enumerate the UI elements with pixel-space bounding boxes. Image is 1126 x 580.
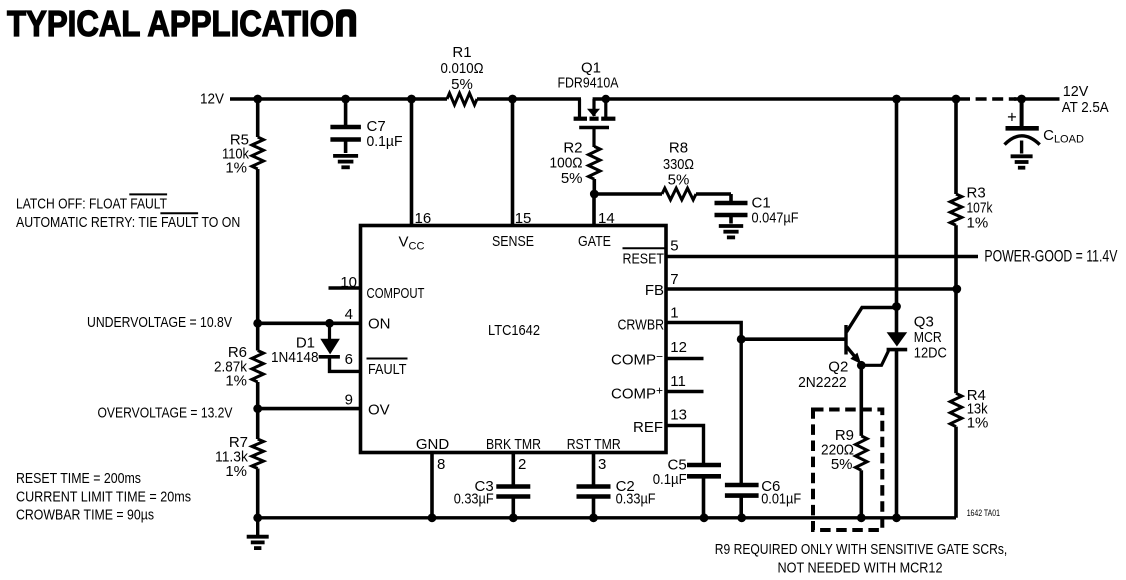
svg-text:+: + <box>1007 109 1017 127</box>
R9 optional dashed box <box>813 410 882 531</box>
wire pin13 REF net <box>666 426 704 464</box>
svg-text:0.047µF: 0.047µF <box>752 210 799 227</box>
svg-text:0.33µF: 0.33µF <box>616 491 656 508</box>
pin name FAULT <box>367 359 408 379</box>
wire pin15 SENSE from rail <box>511 99 515 227</box>
svg-text:1%: 1% <box>225 373 247 390</box>
svg-text:5%: 5% <box>561 170 583 187</box>
svg-text:4: 4 <box>345 306 353 323</box>
svg-text:AT 2.5A: AT 2.5A <box>1062 99 1109 116</box>
wire Q2 base wire <box>741 337 846 341</box>
junction R5-R6-ON <box>253 319 262 328</box>
svg-text:ON: ON <box>368 316 391 333</box>
pin name REF <box>633 419 663 436</box>
transistor Q1 <box>558 60 619 147</box>
pin name COMP- <box>611 350 663 369</box>
svg-text:CROWBAR TIME = 90µs: CROWBAR TIME = 90µs <box>16 507 154 524</box>
node 12V output label <box>1062 83 1109 116</box>
ground main <box>247 518 269 548</box>
svg-text:RESET: RESET <box>623 250 665 267</box>
resistor R3 <box>950 99 993 289</box>
junction rail-R7 <box>253 513 262 522</box>
note figure tag 1642 TA01 <box>967 508 1000 519</box>
svg-text:12: 12 <box>670 339 687 356</box>
svg-text:330Ω: 330Ω <box>663 156 694 173</box>
node OVERVOLTAGE label <box>98 405 233 422</box>
capacitor C2 <box>577 451 656 518</box>
pin name GATE <box>578 233 611 250</box>
svg-text:15: 15 <box>515 210 532 227</box>
pin name CRWBR <box>618 317 665 334</box>
svg-text:CRWBR: CRWBR <box>618 317 665 334</box>
wire R8 to C1 <box>696 192 731 196</box>
note automatic retry <box>16 213 240 231</box>
junction rail-C2 <box>589 513 598 522</box>
pin name VCC <box>399 234 425 253</box>
svg-text:UNDERVOLTAGE = 10.8V: UNDERVOLTAGE = 10.8V <box>87 314 232 331</box>
junction Q2collector-Q3anode <box>892 302 901 311</box>
thyristor Q3 <box>861 99 947 518</box>
wire gate to R8 <box>594 192 662 196</box>
pin name OV <box>368 402 390 419</box>
resistor R2 <box>550 139 601 194</box>
node UNDERVOLTAGE label <box>87 314 232 331</box>
pin 4 label <box>345 306 353 323</box>
ground C1 <box>719 226 743 237</box>
capacitor C7 <box>330 99 402 153</box>
wire 12V top rail mid segment <box>477 97 581 101</box>
svg-text:12DC: 12DC <box>914 345 947 362</box>
svg-text:16: 16 <box>415 210 432 227</box>
svg-text:2N2222: 2N2222 <box>798 374 847 391</box>
svg-text:1%: 1% <box>967 415 989 432</box>
pin name COMPOUT <box>367 285 425 302</box>
svg-text:1: 1 <box>670 305 678 322</box>
note R9 required line2 <box>778 560 943 577</box>
svg-text:FDR9410A: FDR9410A <box>558 75 619 92</box>
svg-text:7: 7 <box>670 271 678 288</box>
pin 13 label <box>670 406 687 423</box>
junction rail-C6 <box>737 513 746 522</box>
junction rail-pin8 <box>428 513 437 522</box>
pin 7 label <box>670 271 678 288</box>
pin name RST TMR <box>567 436 621 453</box>
wire 12V top rail output segment <box>1014 97 1060 101</box>
capacitor C6 <box>725 478 801 518</box>
svg-text:COMP−: COMP− <box>611 350 663 369</box>
svg-text:1%: 1% <box>967 215 989 232</box>
node 12V input label <box>200 91 224 108</box>
node POWER-GOOD label <box>984 246 1118 265</box>
wire gate to pin14 <box>592 194 596 227</box>
junction rail-C5 <box>700 513 709 522</box>
svg-text:5%: 5% <box>831 456 853 473</box>
svg-text:NOT NEEDED WITH MCR12: NOT NEEDED WITH MCR12 <box>778 560 943 577</box>
capacitor C1 <box>715 194 799 227</box>
pin 11 stub <box>666 390 704 394</box>
svg-text:RST TMR: RST TMR <box>567 436 621 453</box>
svg-text:TYPICAL APPLICATIO: TYPICAL APPLICATIO <box>7 3 334 44</box>
svg-text:0.01µF: 0.01µF <box>761 491 801 508</box>
junction rail-R5 <box>253 95 262 104</box>
resistor R4 <box>950 289 988 518</box>
wire ON net <box>258 321 361 325</box>
svg-text:FAULT: FAULT <box>368 361 407 378</box>
junction rail-CLOAD <box>1017 95 1026 104</box>
svg-text:1642 TA01: 1642 TA01 <box>967 508 1000 519</box>
svg-text:5%: 5% <box>668 172 690 189</box>
title TYPICAL APPLICATION <box>7 3 356 44</box>
svg-text:2: 2 <box>518 456 526 473</box>
junction Q2emitter-R9-Q3gate <box>857 361 866 370</box>
resistor R8 <box>662 140 696 200</box>
svg-text:11: 11 <box>670 373 686 390</box>
wire pin1 CRWBR net <box>666 323 741 484</box>
svg-text:9: 9 <box>345 392 353 409</box>
svg-text:0.1µF: 0.1µF <box>653 471 687 488</box>
pin 10 label <box>340 274 357 291</box>
junction rail-SENSE <box>508 95 517 104</box>
pin 14 label <box>598 210 615 227</box>
svg-text:12V: 12V <box>1063 83 1089 100</box>
svg-text:LATCH OFF: FLOAT FAULT: LATCH OFF: FLOAT FAULT <box>16 195 167 212</box>
op-amp U1 LTC1642 body <box>361 226 667 453</box>
pin 2 label <box>518 456 526 473</box>
pin name GND <box>416 436 450 453</box>
pin 12 label <box>670 339 687 356</box>
diode D1 <box>271 323 361 371</box>
pin name BRK TMR <box>486 436 541 453</box>
pin name SENSE <box>492 233 534 250</box>
svg-text:MCR: MCR <box>914 329 942 346</box>
svg-text:0.33µF: 0.33µF <box>454 491 494 508</box>
svg-text:1%: 1% <box>225 160 247 177</box>
pin 3 label <box>598 456 606 473</box>
pin 5 label <box>670 238 678 255</box>
svg-text:0.010Ω: 0.010Ω <box>441 60 484 77</box>
svg-text:OVERVOLTAGE = 13.2V: OVERVOLTAGE = 13.2V <box>98 405 233 422</box>
junction CRWBR-Q2base <box>737 335 746 344</box>
svg-text:14: 14 <box>598 210 615 227</box>
svg-text:CURRENT LIMIT TIME = 20ms: CURRENT LIMIT TIME = 20ms <box>16 489 191 506</box>
resistor R9 <box>821 365 867 518</box>
pin 1 label <box>670 305 678 322</box>
capacitor CLOAD <box>1005 99 1084 154</box>
transistor Q2 <box>798 308 896 391</box>
capacitor C3 <box>454 451 531 518</box>
pin name COMP+ <box>611 384 663 403</box>
junction rail-Q3 <box>892 513 901 522</box>
wire pin5 RESET power-good line <box>666 255 978 259</box>
svg-text:OV: OV <box>368 402 390 419</box>
ground C7 <box>333 156 358 167</box>
junction rail-R3 <box>952 95 961 104</box>
pin name RESET <box>623 248 665 267</box>
svg-text:R9 REQUIRED ONLY WITH SENSITIV: R9 REQUIRED ONLY WITH SENSITIVE GATE SCR… <box>715 541 1008 558</box>
wire 12V top rail left segment <box>230 97 447 101</box>
svg-text:5%: 5% <box>451 76 473 93</box>
svg-text:FB: FB <box>645 282 664 299</box>
svg-text:100Ω: 100Ω <box>550 155 583 172</box>
pin 11 label <box>670 373 686 390</box>
svg-text:GATE: GATE <box>578 233 611 250</box>
svg-text:BRK TMR: BRK TMR <box>486 436 541 453</box>
svg-text:COMPOUT: COMPOUT <box>367 285 425 302</box>
svg-text:RESET TIME = 200ms: RESET TIME = 200ms <box>16 470 141 487</box>
svg-text:12V: 12V <box>200 91 224 108</box>
wire pin16 VCC from rail <box>410 99 414 227</box>
junction rail-VCC <box>407 95 416 104</box>
wire 12V top rail right segment <box>593 97 959 101</box>
svg-text:POWER-GOOD = 11.4V: POWER-GOOD = 11.4V <box>984 246 1118 265</box>
junction ON-D1 <box>325 319 334 328</box>
svg-text:8: 8 <box>437 456 445 473</box>
svg-text:5: 5 <box>670 238 678 255</box>
wire pin8 GND to rail <box>430 451 434 518</box>
svg-text:13: 13 <box>670 406 687 423</box>
resistor R1 <box>441 44 484 105</box>
ground CLOAD <box>1011 156 1033 167</box>
wire pin7 FB line <box>666 287 957 291</box>
svg-text:0.1µF: 0.1µF <box>367 133 403 150</box>
svg-text:6: 6 <box>345 351 353 368</box>
resistor R5 <box>222 99 264 323</box>
svg-text:AUTOMATIC RETRY: TIE FAULT TO: AUTOMATIC RETRY: TIE FAULT TO ON <box>16 214 240 231</box>
junction R6-R7-OV <box>253 404 262 413</box>
svg-text:LTC1642: LTC1642 <box>488 322 540 339</box>
capacitor C5 <box>653 457 721 518</box>
pin name ON <box>368 316 391 333</box>
pin 9 label <box>345 392 353 409</box>
pin 8 label <box>437 456 445 473</box>
svg-text:COMP+: COMP+ <box>611 384 663 403</box>
resistor R6 <box>214 323 264 408</box>
pin 10 stub COMPOUT <box>329 286 361 290</box>
junction FB-R3R4 <box>952 285 961 294</box>
note latch off <box>16 194 167 212</box>
svg-text:REF: REF <box>633 419 663 436</box>
junction rail-C7 <box>341 95 350 104</box>
note current limit time <box>16 489 191 506</box>
junction gate node <box>590 190 599 199</box>
pin 16 label <box>415 210 432 227</box>
svg-text:Q2: Q2 <box>828 358 848 375</box>
svg-text:3: 3 <box>598 456 606 473</box>
pin 6 label <box>345 351 353 368</box>
note reset time <box>16 470 141 487</box>
note crowbar time <box>16 507 154 524</box>
svg-text:10: 10 <box>340 274 357 291</box>
svg-text:GND: GND <box>416 436 450 453</box>
junction rail-C3 <box>509 513 518 522</box>
resistor R7 <box>215 409 264 518</box>
svg-text:SENSE: SENSE <box>492 233 534 250</box>
wire OV net <box>258 407 361 411</box>
svg-text:R8: R8 <box>669 140 688 157</box>
pin 15 label <box>515 210 532 227</box>
junction rail-R9 <box>857 513 866 522</box>
pin name FB <box>645 282 664 299</box>
pin 12 stub <box>666 357 704 361</box>
note R9 required line1 <box>715 541 1008 558</box>
junction rail-Q3net <box>892 95 901 104</box>
svg-text:1N4148: 1N4148 <box>271 349 319 366</box>
wire ground bottom rail <box>258 516 956 519</box>
svg-text:1%: 1% <box>225 463 247 480</box>
wire 12V top rail dashed segment <box>959 97 1016 100</box>
svg-text:R1: R1 <box>452 44 471 61</box>
